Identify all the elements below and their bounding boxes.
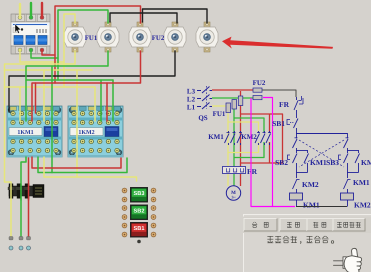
wire FU1-3 top to FU2-2 top (black) bbox=[143, 9, 208, 23]
svg-text:L1: L1 bbox=[187, 104, 196, 112]
thumbs-up icon bbox=[334, 248, 362, 272]
contact SB2-NO with KM1 aux bbox=[275, 150, 327, 173]
contactor KM2 bbox=[68, 106, 123, 158]
svg-text:SB1: SB1 bbox=[134, 226, 145, 232]
svg-text:SB2: SB2 bbox=[275, 158, 288, 167]
fuse holder FU1-1 bbox=[64, 22, 86, 52]
svg-text:FR: FR bbox=[279, 100, 290, 109]
contactor KM1 bbox=[7, 106, 62, 158]
wire magenta return bbox=[251, 98, 295, 207]
wire branch node bbox=[296, 133, 348, 137]
contact FR NC (schematic) bbox=[279, 96, 303, 116]
wire KM1-KM2 bottom link (green) bbox=[38, 157, 127, 173]
contact KM2 NC bbox=[293, 173, 319, 194]
svg-text:QS: QS bbox=[198, 114, 207, 122]
svg-text:SB3: SB3 bbox=[326, 158, 339, 167]
button station bottom screw bbox=[137, 240, 141, 244]
wire L3 red overlay bbox=[212, 89, 253, 91]
contact KM1 NC bbox=[344, 173, 370, 194]
coil KM1 bbox=[290, 193, 320, 210]
wire L2 supply stub (green) bbox=[30, 3, 32, 16]
wire FU1-2 bottom to KM1/KM2 (green) bbox=[26, 51, 108, 121]
wire loop to KM2-3 (red) bbox=[241, 114, 283, 163]
wire through FR (red) bbox=[28, 184, 30, 200]
coil KM2 bbox=[341, 193, 371, 210]
wire breaker-L3 to FU1-3 top (red) bbox=[42, 6, 141, 83]
svg-text:FU2: FU2 bbox=[253, 79, 266, 87]
switch QS (schematic) bbox=[198, 86, 212, 122]
wire through FR (green) bbox=[20, 184, 22, 200]
wire FU2 output to FR contact (gray) bbox=[262, 90, 296, 97]
button SB1 NC (schematic) bbox=[272, 116, 298, 133]
svg-text:KM2: KM2 bbox=[241, 133, 257, 141]
thermal relay FR block bbox=[8, 184, 44, 199]
motor terminal dots bbox=[9, 246, 31, 250]
wire FU1-1 bottom long loop to FR (yellow) bbox=[5, 51, 76, 238]
svg-text:KM2: KM2 bbox=[361, 158, 371, 167]
svg-text:FU2: FU2 bbox=[152, 35, 165, 42]
label L3 bbox=[187, 88, 201, 96]
wire L2 green overlay bbox=[212, 97, 253, 99]
contact SB3-NO with KM2 aux bbox=[326, 150, 371, 173]
wire magenta branch bbox=[263, 98, 273, 207]
wire loop to KM2-2 (green) bbox=[234, 118, 264, 158]
svg-text:FU1: FU1 bbox=[85, 35, 98, 42]
label KM2 (schematic) bbox=[241, 133, 257, 141]
thermal relay FR (schematic) bbox=[223, 167, 246, 174]
wire green branch to KM2 bbox=[26, 80, 113, 121]
wires FR to motor bbox=[228, 174, 241, 186]
svg-text:FR: FR bbox=[247, 167, 258, 176]
svg-text:KM1: KM1 bbox=[310, 158, 327, 167]
wire breaker-L1 to FU1-1 top (yellow) bbox=[20, 14, 75, 87]
wire KM1-KM2 bottom link (red) bbox=[32, 157, 121, 168]
button SB1 (red) bbox=[130, 222, 148, 238]
button SB2 (green) bbox=[130, 205, 148, 221]
wire through FR (yellow) bbox=[10, 184, 12, 200]
label FR (schematic heater) bbox=[247, 167, 258, 176]
svg-text:L2: L2 bbox=[187, 96, 196, 104]
message text 接线正确请继续 bbox=[267, 236, 333, 244]
contact SB3-NC left branch bbox=[293, 137, 298, 150]
svg-text:KM1: KM1 bbox=[353, 178, 370, 187]
button station terminals bbox=[122, 188, 156, 237]
wire phase L1 vertical (yellow) bbox=[227, 106, 229, 167]
toolbar panel with buttons 打开/保存/答案/操作提示 bbox=[243, 214, 371, 272]
wire FU1-2 top to FU2-1 top (black) bbox=[110, 13, 177, 23]
wire L1 supply stub (yellow) bbox=[19, 4, 21, 16]
svg-text:KM1: KM1 bbox=[208, 133, 224, 141]
svg-text:KM2: KM2 bbox=[354, 201, 371, 210]
svg-text:1KM2: 1KM2 bbox=[78, 130, 94, 136]
wire coil bottom bus bbox=[296, 206, 347, 208]
wire yellow distribution to KM tops bbox=[5, 70, 93, 177]
wire FU1-3 bottom to KM1/KM2 (red) bbox=[32, 51, 141, 121]
svg-text:KM2: KM2 bbox=[302, 180, 319, 189]
wire FU2-1 bottom to KM1 left (black) bbox=[9, 51, 175, 112]
wire yellow lower feed bbox=[5, 87, 96, 121]
fuse holder FU2-2 bbox=[196, 22, 218, 52]
wire L3 supply stub (red) bbox=[41, 3, 43, 16]
mechanical interlock dashes bbox=[299, 140, 344, 167]
wire KM1 to motor terminal (green) bbox=[21, 157, 26, 238]
svg-text:SB1: SB1 bbox=[272, 119, 285, 128]
fuse holder FU1-2 bbox=[97, 22, 119, 52]
svg-text:1KM1: 1KM1 bbox=[17, 130, 33, 136]
wire phase L2 vertical (green) bbox=[233, 99, 235, 167]
fuse holder FU2-1 bbox=[164, 22, 186, 52]
svg-text:SB2: SB2 bbox=[134, 209, 145, 215]
label L1 bbox=[187, 104, 201, 112]
mouse cursor bbox=[15, 24, 21, 33]
wire long green riser bbox=[51, 66, 53, 173]
label KM1 (schematic) bbox=[208, 133, 224, 141]
wire breaker-L2 to FU1-2 top (green) bbox=[31, 10, 108, 80]
svg-text:L3: L3 bbox=[187, 88, 196, 96]
label FU2 bbox=[152, 35, 165, 42]
contacts KM1 (schematic) bbox=[225, 131, 243, 145]
svg-text:KM1: KM1 bbox=[303, 201, 320, 210]
label FU1 (schematic) bbox=[213, 110, 226, 118]
svg-text:FU1: FU1 bbox=[213, 110, 226, 118]
svg-text:SB3: SB3 bbox=[134, 191, 145, 197]
label L2 bbox=[187, 96, 201, 104]
fuse FU1 (schematic) bbox=[226, 96, 243, 113]
wire loop to KM2-1 (yellow) bbox=[228, 122, 259, 153]
label FU1 bbox=[85, 35, 98, 42]
circuit breaker QS (3-pole) bbox=[11, 14, 50, 54]
wire L1 yellow overlay bbox=[212, 105, 228, 107]
red annotation arrow bbox=[222, 37, 333, 49]
wire KM1-KM2 bottom link (yellow) bbox=[44, 157, 137, 181]
contact SB2-NC right branch bbox=[344, 137, 349, 150]
wire end lugs bbox=[9, 237, 31, 240]
label FU2 (schematic) bbox=[253, 79, 266, 87]
button SB3 (green) bbox=[130, 187, 148, 203]
contacts KM2 (schematic) bbox=[255, 131, 271, 145]
motor M 3~ bbox=[226, 186, 240, 200]
fuse FU2 (schematic) bbox=[253, 88, 262, 100]
wire KM1 to motor terminal (red) bbox=[28, 158, 30, 238]
wire phase L3 vertical (red) bbox=[240, 91, 242, 167]
fuse holder FU1-3 bbox=[129, 22, 151, 52]
